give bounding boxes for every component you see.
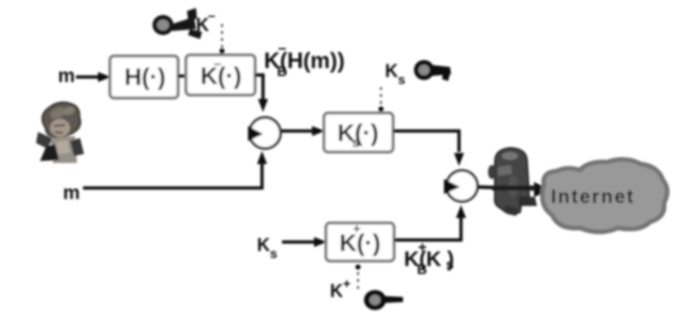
wire m to concat circle A (bottom path) bbox=[83, 164, 262, 188]
concat circle A bbox=[250, 118, 281, 149]
box KB+(.) public key encrypt bbox=[326, 223, 394, 261]
svg-text:m: m bbox=[58, 66, 75, 87]
svg-text:–: – bbox=[214, 56, 221, 71]
dashed wire KS to KS box bbox=[380, 87, 382, 106]
svg-text:B: B bbox=[417, 261, 427, 277]
svg-text:s: s bbox=[270, 246, 277, 261]
svg-text:B: B bbox=[277, 63, 287, 79]
svg-text:s: s bbox=[398, 72, 405, 87]
svg-text:+: + bbox=[418, 239, 427, 256]
box KB-(.) private key sign bbox=[186, 55, 255, 95]
wire KB+ box to concat circle B bbox=[394, 218, 461, 240]
svg-text:Internet: Internet bbox=[551, 187, 635, 208]
svg-text:H(·): H(·) bbox=[124, 64, 165, 91]
cloud Internet bbox=[542, 159, 667, 232]
svg-text:s: s bbox=[352, 135, 359, 150]
wire concat A to KS box bbox=[281, 129, 314, 132]
svg-text:+: + bbox=[353, 221, 361, 236]
key KB+ (public key icon, bottom) bbox=[364, 290, 403, 310]
svg-text:K: K bbox=[330, 281, 343, 301]
person Alice bbox=[36, 103, 84, 163]
svg-text:–: – bbox=[208, 8, 215, 23]
wire KS box to concat circle B bbox=[393, 131, 459, 152]
svg-text:–: – bbox=[278, 40, 286, 57]
box KS(.) symmetric encryption bbox=[324, 113, 393, 152]
svg-text:s: s bbox=[446, 256, 454, 272]
wire H(.) to KB-(.) bbox=[178, 74, 187, 77]
key KS (session key icon) bbox=[414, 60, 451, 81]
box H(.) hash function bbox=[110, 56, 178, 98]
svg-text:K: K bbox=[257, 235, 270, 255]
key KB- (private key icon, top) bbox=[153, 8, 203, 39]
wire KS to KB+ box bbox=[282, 240, 316, 243]
concat circle B bbox=[447, 171, 478, 202]
dashed wire key KB- to box bbox=[221, 24, 223, 48]
svg-text:+: + bbox=[343, 276, 351, 291]
wire m to H(.) box bbox=[76, 75, 100, 78]
dashed wire KB+ key to box bbox=[355, 264, 360, 269]
svg-text:m: m bbox=[63, 183, 80, 204]
hydrant (network attach point) bbox=[488, 148, 537, 216]
wire concat circle B to Internet bbox=[478, 187, 537, 189]
svg-text:K: K bbox=[385, 61, 398, 81]
wire KB- box to concat circle A bbox=[255, 75, 263, 99]
